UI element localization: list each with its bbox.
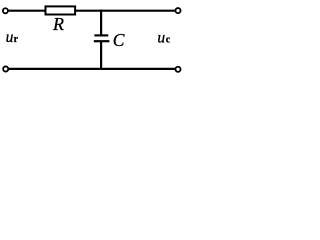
svg-text:c: c [166,35,171,46]
svg-text:u: u [157,30,165,47]
svg-text:R: R [52,14,64,34]
svg-text:r: r [14,34,19,45]
svg-text:u: u [6,29,14,46]
svg-text:C: C [113,30,125,50]
